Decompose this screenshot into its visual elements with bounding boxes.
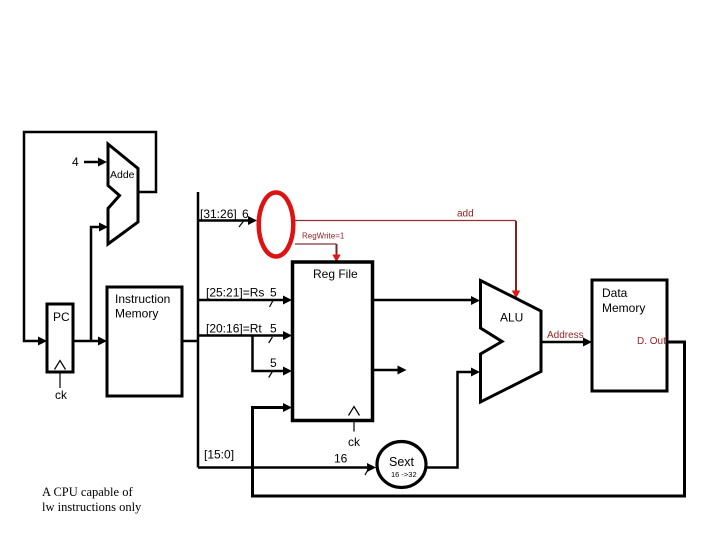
wire add control to ALU (red)	[295, 221, 520, 299]
svg-text:RegWrite=1: RegWrite=1	[302, 232, 345, 241]
sign extender Sext	[377, 442, 426, 488]
label [31:26] 6	[200, 207, 249, 221]
svg-text:D. Out: D. Out	[637, 336, 666, 347]
bus width slash 5 (Rs)	[270, 301, 274, 308]
wire [31:26] opcode field to decoder	[198, 216, 257, 225]
svg-text:Sext: Sext	[389, 455, 415, 469]
svg-text:5: 5	[270, 356, 277, 370]
wire Rt field to Reg File write register port	[253, 336, 293, 376]
svg-text:[31:26]: [31:26]	[200, 207, 237, 221]
wire RegWrite control into Reg File (red)	[295, 244, 341, 262]
svg-text:Memory: Memory	[115, 307, 158, 321]
wire instruction memory output to instruction bus	[182, 340, 198, 343]
reg file	[293, 262, 373, 421]
bus width slash 16	[365, 468, 369, 476]
wire [20:16]=Rt to Reg File read reg 2	[198, 331, 292, 340]
label [25:21]=Rs 5	[206, 286, 277, 300]
wire sign extender output up to ALU input 2	[426, 368, 480, 468]
wire PC+4 feedback loop (adder output right, up, left across top, down to PC input)	[24, 132, 156, 346]
svg-text:16 ->32: 16 ->32	[391, 470, 417, 479]
wire Reg File read data 2 stub	[373, 366, 407, 375]
Reg File clock stem	[353, 422, 355, 432]
svg-text:Instruction: Instruction	[115, 292, 170, 306]
bus width slash 5 (write register)	[269, 372, 273, 378]
adder	[108, 144, 138, 244]
svg-text:Memory: Memory	[602, 301, 645, 315]
wire ALU result to data memory address	[541, 338, 592, 347]
svg-text:[20:16]=Rt: [20:16]=Rt	[206, 322, 262, 336]
wire PC output up into adder lower input	[91, 223, 108, 342]
decoder ellipse (red)	[259, 193, 294, 257]
Reg File clock triangle	[349, 407, 360, 416]
bus width slash 6	[239, 221, 244, 228]
wire [25:21]=Rs to Reg File read reg 1	[198, 296, 292, 305]
svg-text:[25:21]=Rs: [25:21]=Rs	[206, 286, 264, 300]
wire constant 4 into adder	[84, 158, 107, 167]
PC clock stem	[59, 374, 61, 389]
svg-text:Adde: Adde	[110, 169, 135, 181]
data memory label	[602, 286, 645, 315]
svg-text:[15:0]: [15:0]	[204, 448, 234, 462]
wire PC to instruction memory	[73, 337, 107, 346]
instruction memory label	[115, 292, 170, 321]
label [20:16]=Rt 5	[206, 322, 277, 336]
wire Reg File read data 1 to ALU input 1	[373, 296, 480, 305]
svg-text:Address: Address	[547, 330, 584, 341]
svg-text:A CPU capable of: A CPU capable of	[42, 485, 133, 499]
instruction bus (vertical)	[197, 192, 200, 468]
bus width slash 5 (Rt)	[269, 337, 273, 343]
register PC	[47, 304, 73, 372]
svg-text:add: add	[457, 209, 474, 220]
svg-text:lw instructions only: lw instructions only	[42, 500, 142, 514]
ALU	[481, 281, 542, 403]
svg-text:16: 16	[334, 452, 348, 466]
PC clock triangle	[55, 361, 66, 370]
svg-text:Reg File: Reg File	[313, 267, 358, 281]
svg-text:5: 5	[270, 322, 277, 336]
instruction memory	[107, 287, 182, 396]
svg-text:ck: ck	[55, 388, 68, 402]
svg-text:ALU: ALU	[500, 311, 523, 325]
svg-text:5: 5	[270, 286, 277, 300]
wire [15:0] immediate to sign extender	[198, 463, 376, 472]
svg-text:6: 6	[242, 207, 249, 221]
svg-text:ck: ck	[348, 435, 361, 449]
svg-text:PC: PC	[53, 310, 70, 324]
svg-text:4: 4	[72, 155, 79, 169]
wire write-back data into Reg File write data port	[253, 342, 685, 496]
svg-text:Data: Data	[602, 286, 628, 300]
data memory	[592, 280, 667, 391]
